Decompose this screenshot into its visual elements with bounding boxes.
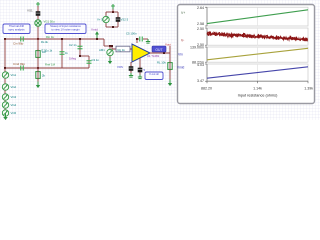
label Rin [46, 35, 55, 39]
axis label V- [181, 39, 184, 43]
svg-text:2.50: 2.50 [197, 27, 204, 31]
x axis title [238, 94, 278, 98]
svg-text:V+: V+ [181, 11, 185, 15]
junction C4 top [61, 38, 63, 40]
wire supply top rail [106, 11, 118, 13]
svg-text:Vin3: Vin3 [11, 95, 17, 99]
svg-text:spec analysis: spec analysis [8, 27, 25, 31]
wire output horizontal [150, 52, 170, 54]
ground VOS [129, 73, 133, 77]
svg-text:RL 10k: RL 10k [157, 61, 166, 65]
label C4 aux [65, 51, 68, 55]
svg-text:Vmid: Vmid [177, 66, 184, 70]
svg-text:C2 1n: C2 1n [69, 43, 77, 47]
svg-text:1k: 1k [65, 51, 68, 55]
power V+ terminal [36, 2, 40, 7]
axis label Vmid [177, 66, 184, 70]
capacitor C2 [78, 46, 83, 50]
wire supply bottom rail [106, 26, 118, 28]
svg-text:Vin4: Vin4 [11, 103, 17, 107]
svg-text:2.64: 2.64 [197, 6, 204, 10]
label VG1 [44, 20, 55, 24]
resistor R1 [36, 49, 40, 59]
junction meter tap [109, 45, 111, 47]
ground under R2 [36, 82, 40, 89]
wire C3 branch [88, 56, 90, 68]
wire U1 V+ pin [136, 39, 138, 43]
capacitor Cin2 [20, 66, 24, 71]
axis label Vin [178, 53, 183, 57]
wire VS3 to ground [139, 73, 141, 76]
svg-text:VOS: VOS [117, 65, 123, 69]
svg-text:882.20: 882.20 [201, 87, 212, 91]
svg-text:Input resistance (ohms): Input resistance (ohms) [238, 94, 278, 98]
meter Vin1 [2, 72, 8, 78]
wire Vout stub up [169, 46, 171, 53]
label C3 [92, 58, 100, 62]
svg-text:VS2 5: VS2 5 [121, 18, 129, 22]
subplot frames and gridlines [207, 7, 308, 81]
wire net B horizontal [104, 45, 112, 47]
ground under RL [168, 80, 172, 87]
ground VS3 [138, 75, 142, 79]
junction C5 tap [136, 38, 138, 40]
chart window [178, 5, 315, 104]
label Vin2 [11, 85, 17, 89]
svg-text:U1 TL081: U1 TL081 [147, 54, 160, 58]
note box output [145, 72, 163, 80]
generator VG1 [35, 20, 41, 26]
trace Vin (olive) [207, 48, 308, 60]
wire left vertical [4, 39, 6, 68]
meter Vin4 [2, 102, 8, 108]
wire net A horizontal [5, 38, 104, 40]
junction supply bottom [112, 26, 114, 28]
axis label V+ [181, 11, 185, 15]
x tick 1.39k [304, 87, 313, 91]
wire VOS to ground [130, 71, 132, 74]
wire meter stub [109, 46, 111, 49]
resistor RL [168, 61, 172, 71]
y-axis ticks [205, 7, 308, 83]
svg-text:3.47: 3.47 [197, 79, 204, 83]
resistor R2 [36, 70, 40, 80]
svg-text:Vin: Vin [178, 53, 183, 57]
wire net C horizontal [5, 67, 89, 69]
svg-text:Rs 4k: Rs 4k [41, 40, 49, 44]
label RL [157, 61, 166, 65]
junction Vmid [96, 38, 98, 40]
svg-text:5: 5 [144, 68, 146, 72]
label 1Meg [69, 57, 76, 61]
svg-text:1.14k: 1.14k [253, 87, 262, 91]
label V+ meter [97, 18, 103, 22]
label Cin value [13, 42, 24, 46]
trace V- (noisy dark red) [207, 32, 308, 41]
label Vin3 [11, 95, 17, 99]
svg-text:AM1: AM1 [99, 48, 105, 52]
meter Vin2 [2, 84, 8, 90]
resistor Rg [112, 46, 132, 52]
svg-text:V-: V- [181, 39, 184, 43]
wire U1 V- pin [139, 58, 141, 67]
wire RL branch [169, 53, 171, 80]
junction C2 bottom [79, 55, 81, 57]
svg-text:Vout: Vout [165, 43, 171, 47]
capacitor Cin [20, 37, 24, 42]
wire VS1 branch [37, 6, 39, 39]
junction supply top [112, 11, 114, 13]
trace Vmid (blue) [207, 67, 308, 78]
label C5 [126, 32, 137, 36]
wire U1 offset pin [130, 62, 132, 66]
svg-text:Vin2: Vin2 [11, 85, 17, 89]
wire C2 branch [79, 39, 81, 56]
label Rs [41, 40, 49, 44]
svg-text:Rg 1k: Rg 1k [118, 48, 126, 52]
wire R2 branch [37, 68, 39, 82]
trace V+ (green) [207, 10, 308, 24]
x tick 1.14k [253, 87, 262, 91]
junction node B38 [37, 67, 39, 69]
ground C5 [146, 39, 150, 43]
wire supply right branch [117, 12, 119, 27]
label U1 part [147, 54, 160, 58]
junction C-left [4, 67, 6, 69]
junction node A [37, 38, 39, 40]
label Rref [45, 63, 56, 67]
battery VOS [129, 65, 134, 72]
svg-text:C3 1n: C3 1n [92, 58, 100, 62]
label Vin4 [11, 103, 17, 107]
svg-text:VS1: VS1 [27, 9, 33, 13]
label Vin1 [11, 73, 17, 77]
label VS2 [121, 18, 129, 22]
label Cin2 [13, 62, 25, 66]
meter VM2 [103, 16, 109, 22]
svg-text:4.03: 4.03 [197, 63, 204, 67]
svg-text:OUT: OUT [155, 48, 162, 52]
op-amp U1 [132, 44, 150, 62]
svg-text:Vmid: Vmid [91, 28, 98, 32]
wire corner A-B [103, 39, 105, 46]
battery VS1 [36, 10, 41, 17]
note box 1 [3, 24, 30, 34]
label Rg [118, 48, 126, 52]
svg-text:to view 1/f noise margin: to view 1/f noise margin [51, 27, 80, 31]
x tick 882.20 [201, 87, 212, 91]
label R2 value [42, 74, 46, 78]
wire supply left branch [105, 12, 107, 27]
ground column bottom [3, 114, 7, 121]
label R1 value [42, 50, 47, 54]
wire supply stub [112, 9, 114, 13]
svg-text:C5 100n: C5 100n [126, 32, 137, 36]
label Vmid [91, 28, 98, 32]
junction C2 top [79, 38, 81, 40]
svg-text:VG1 50u: VG1 50u [44, 20, 55, 24]
pin Vmid arrow [95, 31, 99, 38]
wire meter to ground [109, 56, 111, 58]
wire R1 branch [37, 39, 39, 68]
wire corner into Rg [111, 46, 113, 49]
svg-text:Vin1: Vin1 [11, 73, 17, 77]
svg-text:Rin 1k: Rin 1k [46, 35, 55, 39]
svg-text:Cin 99p: Cin 99p [13, 42, 24, 46]
label Vout pin [165, 43, 171, 47]
meter Vin3 [2, 94, 8, 100]
junction Rg tap [111, 45, 113, 47]
svg-text:IT 50u 1k: IT 50u 1k [41, 49, 53, 53]
power V+ supply terminal [111, 4, 115, 9]
output label box OUT [152, 46, 166, 52]
label Vin5 [11, 111, 17, 115]
capacitor C4 [60, 51, 65, 55]
y tick labels [190, 6, 204, 83]
svg-text:V+ 5: V+ 5 [97, 18, 103, 22]
wire C2-C3 stub [80, 55, 89, 57]
svg-text:Rref 1M: Rref 1M [45, 63, 56, 67]
ground under AM1 [108, 58, 112, 65]
label VS3 value [144, 68, 146, 72]
wire C4 branch [61, 39, 63, 68]
svg-text:Vin5: Vin5 [11, 111, 17, 115]
battery VS2 [116, 16, 121, 23]
label C4 [41, 49, 53, 53]
svg-text:2k: 2k [42, 74, 46, 78]
label VOS [117, 65, 123, 69]
junction output [163, 52, 165, 54]
svg-text:1Meg: 1Meg [69, 57, 76, 61]
capacitor C5 [139, 37, 143, 42]
svg-text:139.00m: 139.00m [190, 45, 204, 49]
wire C5 to ground [143, 38, 148, 40]
svg-text:2.58: 2.58 [197, 22, 204, 26]
label AM1 [99, 48, 105, 52]
wire to C5 [137, 38, 139, 40]
meter AM1 [107, 49, 113, 55]
svg-text:Cin2 99p: Cin2 99p [13, 62, 25, 66]
label C2 [69, 43, 77, 47]
svg-text:V out dc: V out dc [149, 72, 160, 76]
meter Vin5 [2, 110, 8, 116]
note box 2 [45, 24, 86, 34]
svg-text:1.39k: 1.39k [304, 87, 313, 91]
junction A-left [4, 38, 6, 40]
battery VS3 [138, 67, 143, 74]
capacitor C3 [87, 60, 92, 64]
wire meters column [4, 68, 6, 113]
label VS1 [27, 9, 33, 13]
